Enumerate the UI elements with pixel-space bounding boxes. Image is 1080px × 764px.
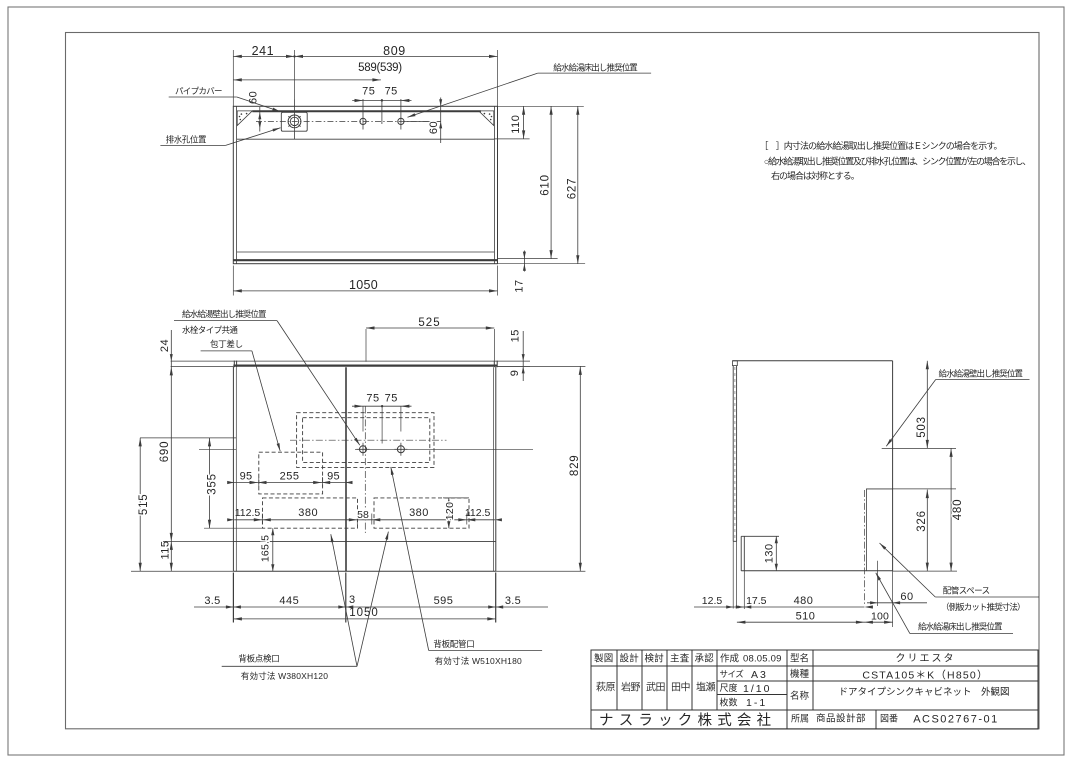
svg-text:設計: 設計 (620, 653, 640, 665)
svg-text:図番: 図番 (880, 713, 898, 724)
svg-text:326: 326 (916, 510, 928, 532)
svg-text:主査: 主査 (670, 653, 690, 665)
svg-text:塩瀬: 塩瀬 (696, 681, 716, 694)
svg-text:有効寸法 W510XH180: 有効寸法 W510XH180 (435, 656, 522, 666)
svg-text:75: 75 (362, 86, 375, 98)
svg-text:165.5: 165.5 (260, 535, 272, 562)
svg-text:給水給湯壁出し推奨位置: 給水給湯壁出し推奨位置 (939, 369, 1024, 379)
svg-text:60: 60 (248, 91, 260, 104)
svg-text:所属: 所属 (791, 714, 809, 724)
svg-text:60: 60 (428, 121, 440, 134)
svg-text:809: 809 (383, 44, 406, 58)
svg-text:17.5: 17.5 (746, 595, 767, 607)
svg-text:サイズ: サイズ (720, 669, 745, 679)
svg-text:［ ］内寸法の給水給湯取出し推奨位置はＥシンクの場合を示す。: ［ ］内寸法の給水給湯取出し推奨位置はＥシンクの場合を示す。 (760, 140, 1002, 151)
svg-text:503: 503 (916, 416, 928, 438)
svg-text:水栓タイプ共通: 水栓タイプ共通 (182, 325, 238, 335)
svg-text:承認: 承認 (695, 653, 715, 665)
svg-text:1050: 1050 (349, 607, 379, 619)
svg-text:3.5: 3.5 (204, 595, 220, 607)
svg-text:75: 75 (366, 393, 379, 405)
svg-text:排水孔位置: 排水孔位置 (166, 134, 207, 144)
svg-text:115: 115 (159, 540, 171, 559)
svg-text:ACS02767-01: ACS02767-01 (913, 714, 999, 726)
svg-text:商品設計部: 商品設計部 (816, 713, 866, 725)
svg-text:24: 24 (159, 339, 171, 352)
svg-text:有効寸法 W380XH120: 有効寸法 W380XH120 (241, 671, 328, 681)
svg-text:包丁差し: 包丁差し (210, 339, 243, 349)
svg-text:3: 3 (349, 594, 355, 606)
svg-text:田中: 田中 (671, 681, 690, 694)
svg-text:9: 9 (509, 370, 521, 377)
svg-text:作成: 作成 (720, 653, 740, 665)
svg-text:給水給湯床出し推奨位置: 給水給湯床出し推奨位置 (918, 622, 1003, 632)
svg-text:給水給湯壁出し推奨位置: 給水給湯壁出し推奨位置 (182, 309, 267, 319)
svg-text:武田: 武田 (646, 681, 666, 694)
svg-text:右の場合は対称とする。: 右の場合は対称とする。 (771, 170, 859, 181)
svg-text:岩野: 岩野 (621, 681, 641, 694)
svg-text:1-1: 1-1 (746, 697, 767, 709)
svg-text:829: 829 (569, 455, 581, 477)
svg-text:112.5: 112.5 (465, 507, 491, 519)
svg-text:1/10: 1/10 (743, 683, 771, 695)
svg-text:型名: 型名 (790, 653, 809, 665)
svg-text:ドアタイプシンクキャビネット 外観図: ドアタイプシンクキャビネット 外観図 (838, 686, 1009, 698)
svg-text:60: 60 (900, 591, 913, 603)
svg-text:525: 525 (418, 317, 440, 329)
svg-text:255: 255 (280, 470, 300, 482)
svg-text:130: 130 (763, 543, 775, 563)
svg-text:背板配管口: 背板配管口 (433, 639, 474, 649)
svg-text:枚数: 枚数 (720, 697, 738, 708)
svg-text:12.5: 12.5 (702, 595, 723, 607)
svg-text:380: 380 (409, 507, 429, 519)
svg-text:380: 380 (298, 507, 318, 519)
svg-text:08.05.09: 08.05.09 (743, 654, 782, 665)
svg-text:95: 95 (327, 470, 340, 482)
svg-text:75: 75 (385, 86, 398, 98)
svg-text:名称: 名称 (790, 690, 810, 702)
svg-text:58: 58 (357, 509, 369, 521)
svg-text:95: 95 (240, 470, 253, 482)
svg-text:配管スペース: 配管スペース (943, 586, 990, 596)
svg-text:610: 610 (539, 174, 551, 196)
svg-text:355: 355 (206, 473, 218, 495)
svg-text:ナスラック株式会社: ナスラック株式会社 (599, 712, 776, 729)
svg-text:CSTA105＊K（H850）: CSTA105＊K（H850） (862, 670, 988, 682)
svg-text:製図: 製図 (594, 653, 613, 665)
svg-text:17: 17 (514, 279, 526, 292)
svg-text:75: 75 (385, 393, 398, 405)
svg-text:595: 595 (434, 595, 454, 607)
svg-text:100: 100 (871, 610, 889, 622)
svg-text:給水給湯床出し推奨位置: 給水給湯床出し推奨位置 (553, 63, 638, 73)
svg-text:背板点検口: 背板点検口 (238, 654, 279, 664)
svg-text:241: 241 (252, 44, 275, 58)
svg-text:萩原: 萩原 (596, 682, 616, 694)
svg-text:510: 510 (796, 610, 816, 622)
svg-text:120: 120 (444, 502, 456, 520)
svg-text:パイプカバー: パイプカバー (175, 86, 222, 96)
svg-text:445: 445 (279, 595, 299, 607)
svg-text:110: 110 (510, 115, 522, 134)
svg-text:A3: A3 (751, 669, 768, 681)
svg-text:尺度: 尺度 (720, 682, 738, 693)
svg-text:480: 480 (952, 499, 964, 521)
svg-text:480: 480 (794, 595, 814, 607)
svg-text:クリエスタ: クリエスタ (896, 653, 956, 665)
svg-text:3.5: 3.5 (505, 595, 521, 607)
svg-text:589(539): 589(539) (358, 62, 402, 74)
svg-text:627: 627 (566, 178, 578, 200)
svg-text:690: 690 (159, 441, 171, 463)
svg-text:112.5: 112.5 (235, 507, 261, 519)
svg-text:機種: 機種 (790, 668, 810, 680)
svg-text:○給水給湯取出し推奨位置及び排水孔位置は、シンク位置が左の場: ○給水給湯取出し推奨位置及び排水孔位置は、シンク位置が左の場合を示し、 (764, 156, 1030, 167)
svg-text:15: 15 (509, 329, 521, 342)
svg-text:（側板カット推奨寸法）: （側板カット推奨寸法） (941, 602, 1025, 612)
svg-text:515: 515 (138, 494, 150, 516)
svg-text:検討: 検討 (645, 653, 665, 665)
svg-text:1050: 1050 (349, 278, 378, 292)
